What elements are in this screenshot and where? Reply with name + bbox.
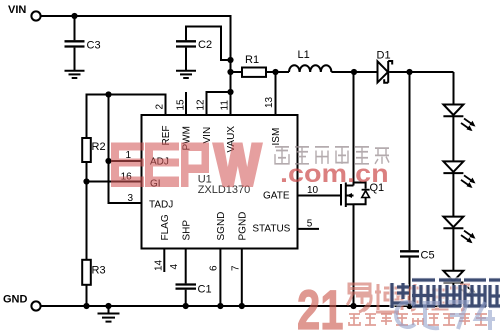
node GND terminal — [3, 294, 41, 311]
wire GI pin 16 line — [87, 181, 142, 183]
svg-text:R1: R1 — [245, 54, 259, 66]
pin labels top rotated — [121, 96, 319, 271]
node C2 branch junction — [227, 57, 233, 63]
node PGND rail junction — [239, 303, 245, 309]
svg-text:21: 21 — [297, 278, 344, 332]
svg-text:15: 15 — [176, 99, 187, 111]
ground under C2 — [176, 71, 196, 78]
svg-text:VIN: VIN — [8, 4, 26, 16]
wire ground rail — [41, 305, 454, 307]
svg-text:13: 13 — [264, 96, 275, 108]
svg-text:12: 12 — [196, 99, 207, 111]
svg-text:STATUS: STATUS — [252, 224, 290, 235]
node R1 left junction — [227, 69, 233, 75]
watermark blue chinese big — [392, 280, 500, 308]
svg-text:GND: GND — [3, 294, 28, 306]
svg-text:VIN: VIN — [202, 127, 213, 144]
wire REF pin 2 line — [87, 95, 166, 138]
wire LED3-LED4 — [452, 228, 454, 270]
node Q1 drain junction — [351, 69, 357, 75]
pin VIN stub 12 — [207, 92, 231, 115]
wire L1 to D1 — [331, 71, 377, 73]
svg-text:3: 3 — [128, 193, 134, 204]
svg-text:L1: L1 — [298, 49, 310, 61]
capacitor C5 — [400, 250, 435, 307]
watermark blue chinese halo — [392, 280, 500, 308]
pin VAUX stub 11 — [230, 92, 232, 115]
svg-text:4: 4 — [169, 264, 180, 270]
svg-text:C5: C5 — [421, 250, 435, 262]
node C5 top junction — [406, 69, 412, 75]
svg-text:7: 7 — [231, 265, 242, 271]
svg-text:.com.cn: .com.cn — [280, 160, 389, 188]
resistor R1 — [242, 54, 266, 77]
svg-text:TADJ: TADJ — [149, 200, 173, 211]
svg-text:D1: D1 — [377, 50, 391, 62]
svg-text:11: 11 — [220, 100, 231, 111]
diode D1 (schottky) — [377, 50, 393, 83]
node REF/ADJ junction — [105, 91, 111, 97]
svg-text:C2: C2 — [198, 39, 212, 51]
wire ADJ drop — [109, 95, 142, 162]
svg-text:SHP: SHP — [181, 220, 192, 241]
node VAUX junction — [227, 89, 233, 95]
ground under C3 — [65, 71, 85, 78]
node GI junction — [83, 178, 89, 184]
ground symbol on rail — [98, 306, 120, 322]
svg-text:C3: C3 — [87, 40, 101, 52]
wire R1 right lead — [266, 71, 289, 73]
capacitor C3 — [65, 40, 101, 71]
wire GATE pin 10 line — [298, 195, 342, 197]
svg-text:GATE: GATE — [263, 191, 290, 202]
svg-text:14: 14 — [154, 259, 165, 271]
LED D5 — [443, 271, 475, 298]
pin PWM stub 15 — [185, 92, 187, 115]
inductor L1 — [289, 49, 331, 72]
node VIN terminal — [8, 4, 41, 21]
resistor R2 — [82, 138, 105, 162]
LED D2 — [443, 105, 475, 132]
wire SGND to rail — [219, 249, 221, 307]
svg-text:R2: R2 — [92, 141, 106, 153]
wire TADJ link — [109, 161, 142, 203]
node Q1 source rail junction — [350, 303, 356, 309]
transistor Q1 — [341, 72, 384, 306]
wire C5 branch — [409, 72, 411, 250]
wire C2 top branch — [186, 27, 231, 61]
svg-text:SGND: SGND — [216, 212, 227, 241]
wire PGND to rail — [241, 249, 243, 307]
LED D3 — [443, 161, 475, 188]
wire LED string down — [453, 72, 455, 105]
wire R3 to rail — [86, 285, 88, 306]
watermark light blue glyphs — [396, 302, 495, 330]
wire SHP to C1 — [185, 249, 187, 284]
node R3 rail junction — [83, 303, 89, 309]
svg-text:C1: C1 — [198, 284, 212, 296]
pin STATUS stub 5 — [298, 228, 320, 230]
wire C3 stub — [74, 16, 76, 40]
capacitor C2 — [176, 39, 212, 70]
svg-text:5: 5 — [307, 219, 313, 230]
node C1 rail junction — [183, 303, 189, 309]
watermark red chinese big — [347, 284, 470, 312]
node C5 rail junction — [406, 303, 412, 309]
wire R1 left lead — [231, 71, 243, 73]
node SGND rail junction — [217, 303, 223, 309]
wire R2 to R3 — [86, 162, 88, 260]
svg-text:2: 2 — [155, 104, 166, 110]
IC U1 box — [142, 115, 298, 249]
svg-text:6: 6 — [209, 265, 220, 271]
pin FLAG stub 14 — [163, 249, 165, 273]
capacitor C1 — [176, 284, 212, 307]
svg-text:ISM: ISM — [271, 128, 282, 146]
wire LED2-LED3 — [452, 173, 454, 217]
wire LED1-LED2 — [452, 116, 454, 161]
resistor R3 — [82, 260, 105, 285]
watermark EEPW logo — [111, 143, 263, 188]
node VIN/C3 junction — [71, 13, 77, 19]
svg-text:FLAG: FLAG — [160, 214, 171, 240]
node ADJ/TADJ junction — [105, 158, 111, 164]
wire VIN top rail — [41, 16, 231, 93]
watermark red chinese small — [349, 314, 487, 325]
watermark chinese grey text — [275, 147, 389, 164]
node ground symbol junction — [105, 303, 111, 309]
wire D1 to LED string — [389, 71, 453, 73]
wire ISM pin 13 drop — [275, 72, 277, 115]
svg-text:R3: R3 — [92, 265, 106, 277]
node R1/ISM junction — [272, 69, 278, 75]
LED D4 — [443, 217, 475, 244]
wire LED string to rail — [452, 283, 454, 307]
svg-text:PGND: PGND — [238, 212, 249, 241]
